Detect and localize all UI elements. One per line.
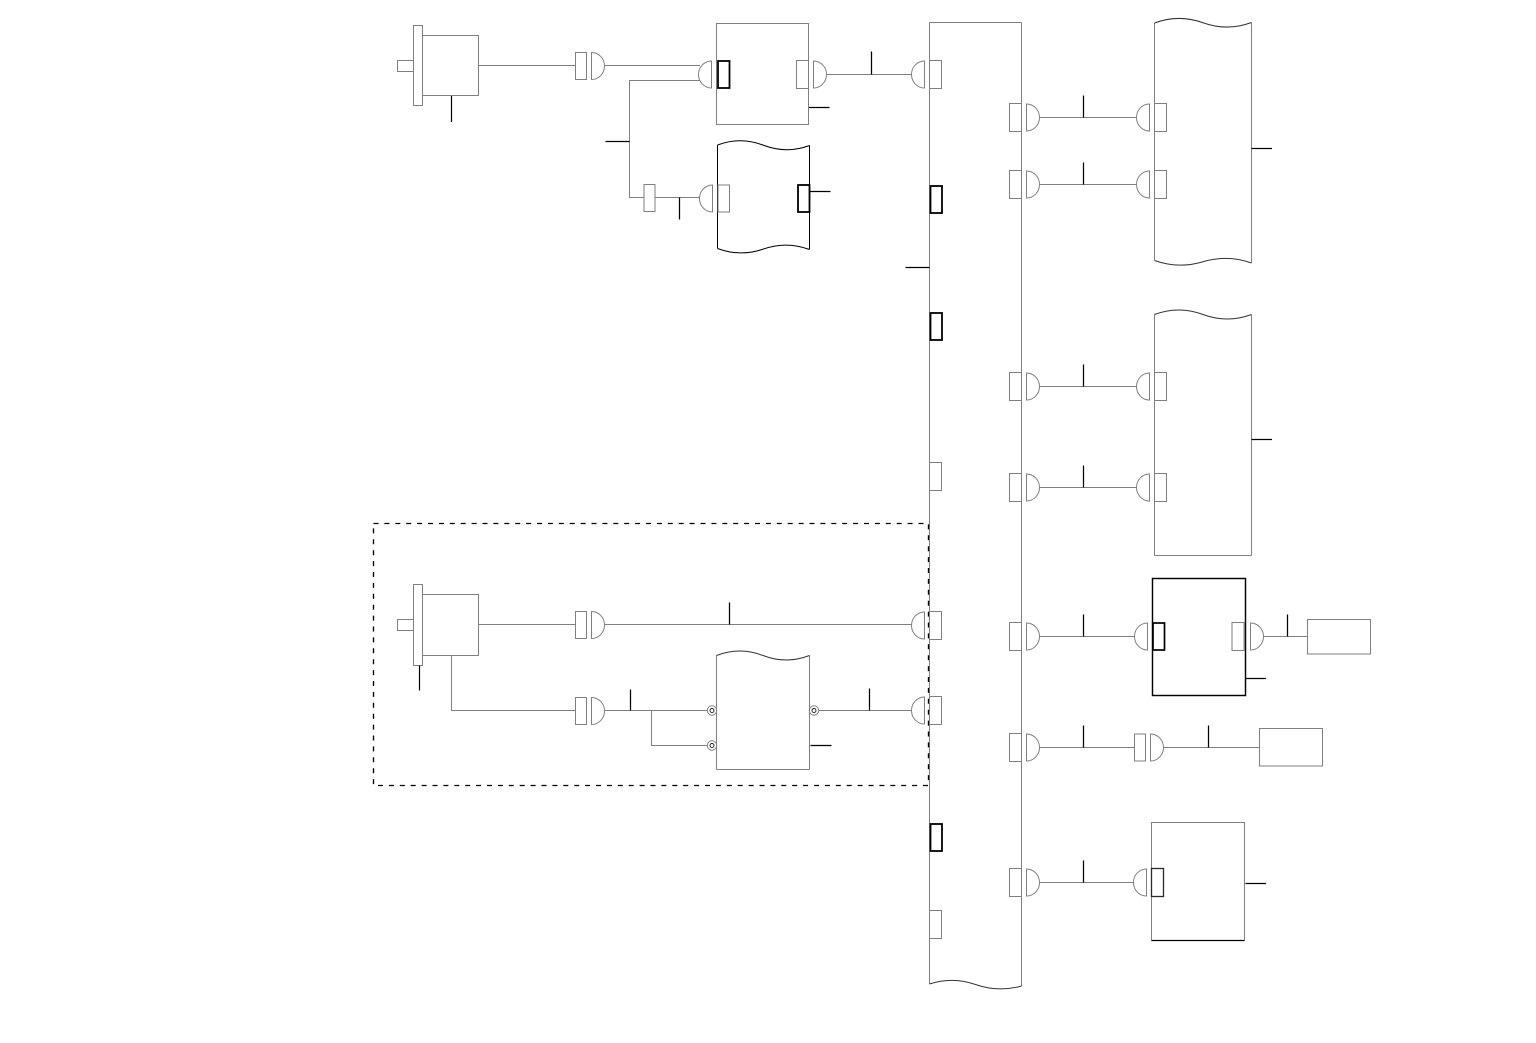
motor M2 flange: [414, 585, 423, 666]
row6 socket on bus right: [1010, 734, 1022, 762]
row4 socket box BB left: [1155, 474, 1167, 502]
cable tick T15 below box BC: [1246, 678, 1267, 680]
wire W5 box B1 to bus: [827, 74, 912, 76]
motor M2 body: [423, 595, 479, 656]
socket bus left row L2: [930, 612, 942, 640]
wire W11 connector K4 to box BG: [605, 710, 708, 712]
plug P3 box B1 right: [814, 61, 827, 88]
row1 plug into box BA: [1137, 104, 1150, 131]
socket bus left y326 (black): [931, 313, 943, 340]
terminal ring box BG left lower: [707, 741, 716, 750]
socket S3 bus left row L1: [930, 61, 942, 89]
connector K1 socket: [576, 53, 587, 80]
row7 socket on bus right: [1010, 869, 1022, 897]
connector K1 plug: [592, 53, 605, 80]
row2 wire: [1040, 184, 1137, 186]
row6 plug from bus: [1027, 734, 1040, 761]
connector K2 socket: [644, 185, 655, 212]
row3 plug from bus: [1027, 373, 1040, 400]
plug P9 into bus left row L2: [912, 612, 925, 639]
wire W12 box BG to bus: [819, 710, 912, 712]
motor M1 flange: [414, 26, 423, 106]
cable tick T19 at box BF right: [1246, 883, 1267, 885]
row7 cable tick: [1083, 861, 1085, 883]
box BA torn bottom edge: [1155, 258, 1252, 265]
box BE: [1260, 729, 1323, 767]
cable tick T9 at box BA right: [1252, 148, 1273, 150]
socket bus left y199 (black): [931, 186, 943, 213]
motor M1 body: [423, 36, 479, 96]
wire W8 motor M2 to connector K3: [479, 624, 576, 626]
row3 socket on bus right: [1010, 373, 1022, 401]
box BF: [1152, 823, 1245, 941]
socket S2 box B1 right: [797, 61, 809, 89]
row2 cable tick: [1083, 163, 1085, 185]
bus trunk torn bottom edge: [930, 980, 1022, 989]
socket S1 box B1 left (black): [718, 61, 730, 88]
terminal ring box BG left upper: [707, 706, 716, 715]
connector K5 socket inline: [1135, 734, 1146, 761]
terminal ring box BG right: [809, 706, 818, 715]
cable tick T4: [679, 198, 681, 220]
row2 socket on bus right: [1010, 171, 1022, 199]
cable tick T25 on bus left edge: [906, 267, 930, 269]
wire W2 connector K1 to box B1: [605, 65, 701, 67]
row5 plug into box BC: [1135, 623, 1148, 650]
row7 plug into box BF: [1134, 869, 1147, 896]
plug P5 into box B2 left: [700, 185, 713, 212]
row2 socket box BA left: [1155, 171, 1167, 199]
row6 wire to box BE: [1164, 747, 1260, 749]
row3 cable tick: [1083, 365, 1085, 387]
box BB torn paper middle-right sides: [1155, 315, 1252, 556]
socket bus left y476: [930, 463, 942, 491]
motor M2 lead line: [419, 666, 421, 691]
row7 wire: [1040, 882, 1134, 884]
row1 plug from bus: [1027, 104, 1040, 131]
bus trunk top edge: [930, 22, 1022, 24]
row5 wire: [1040, 636, 1135, 638]
box BC (black): [1153, 579, 1246, 696]
connector K5 plug: [1151, 734, 1164, 761]
wire W13 branch to box BG lower terminal: [652, 711, 708, 746]
row1 socket on bus right: [1010, 104, 1022, 132]
motor M1 lead line: [451, 96, 453, 122]
row7 plug from bus: [1027, 869, 1040, 896]
connector K3 plug: [592, 612, 605, 639]
box BG torn paper sides: [717, 656, 810, 770]
row1 wire: [1040, 117, 1137, 119]
wire W10 motor M2 to connector K4: [452, 656, 576, 711]
box BD: [1308, 620, 1371, 655]
box B2 torn paper (black): [718, 141, 810, 253]
row5 plug from bus: [1027, 623, 1040, 650]
connector K4 plug: [592, 698, 605, 725]
row4 plug into box BB: [1137, 474, 1150, 501]
row4 plug from bus: [1027, 474, 1040, 501]
dashed group frame: [374, 524, 929, 786]
row2 plug from bus: [1027, 171, 1040, 198]
row2 plug into box BA: [1137, 171, 1150, 198]
socket bus left y837 (black): [931, 824, 943, 851]
cable tick T20: [729, 603, 731, 625]
wire W4 connector K2 to box B2: [655, 197, 700, 199]
row4 wire: [1040, 487, 1137, 489]
row6 cable tick: [1083, 726, 1085, 748]
connector K3 socket: [576, 612, 587, 639]
plug P10 into bus left row L3: [912, 697, 925, 724]
terminal dot box BG left lower: [710, 744, 714, 748]
wire W3 branch to connector K2: [630, 81, 701, 198]
cable tick T3: [606, 141, 630, 143]
box BF bottom edge (black): [1152, 940, 1245, 942]
row3 plug into box BB: [1137, 373, 1150, 400]
cable tick T21: [630, 690, 632, 711]
socket S4 box B2 left: [718, 185, 730, 212]
bus trunk left edge: [929, 23, 931, 985]
row4 socket on bus right: [1010, 474, 1022, 502]
wire W1 motor M1 to connector K1: [479, 65, 576, 67]
socket box BC left (black): [1153, 623, 1165, 650]
plug box BC right: [1251, 623, 1264, 650]
socket bus left y924: [930, 911, 942, 939]
box BG torn top edge: [717, 651, 810, 660]
row3 socket box BB left: [1155, 373, 1167, 401]
row3 wire: [1040, 386, 1137, 388]
connector K4 socket: [576, 698, 587, 725]
socket box BF left (dark): [1152, 869, 1164, 897]
motor M1 shaft stub: [398, 61, 414, 72]
row5 cable tick b: [1287, 615, 1289, 637]
box B1: [717, 24, 809, 125]
plug P2 into box B1 left: [699, 61, 712, 88]
box BB torn top edge: [1155, 310, 1252, 319]
row5 cable tick: [1083, 615, 1085, 637]
row1 socket box BA left: [1155, 104, 1167, 132]
box BA torn top edge: [1155, 18, 1252, 27]
motor M2 shaft stub: [398, 620, 414, 631]
cable tick T6: [810, 191, 831, 193]
cable tick T12 at box BB right: [1252, 439, 1273, 441]
bus trunk right edge: [1021, 23, 1023, 987]
plug P4 into bus left row L1: [912, 61, 925, 88]
row6 wire: [1040, 747, 1135, 749]
terminal dot box BG left upper: [710, 709, 714, 713]
row6 cable tick b: [1208, 726, 1210, 748]
row5 wire to box BD: [1264, 636, 1308, 638]
socket bus left row L3: [930, 697, 942, 725]
row4 cable tick: [1083, 466, 1085, 488]
socket S5 box B2 right (black): [798, 185, 810, 212]
terminal dot box BG right: [812, 709, 816, 713]
cable tick T1: [871, 52, 873, 75]
wire W9 connector K3 to bus: [605, 624, 912, 626]
row5 socket on bus right: [1010, 623, 1022, 651]
socket box BC right: [1232, 623, 1244, 651]
row1 cable tick: [1083, 96, 1085, 118]
cable tick T23 at box BG right: [811, 745, 832, 747]
box BA torn paper top-right sides: [1155, 23, 1252, 264]
cable tick T22: [869, 689, 871, 711]
cable tick T5: [809, 107, 830, 109]
